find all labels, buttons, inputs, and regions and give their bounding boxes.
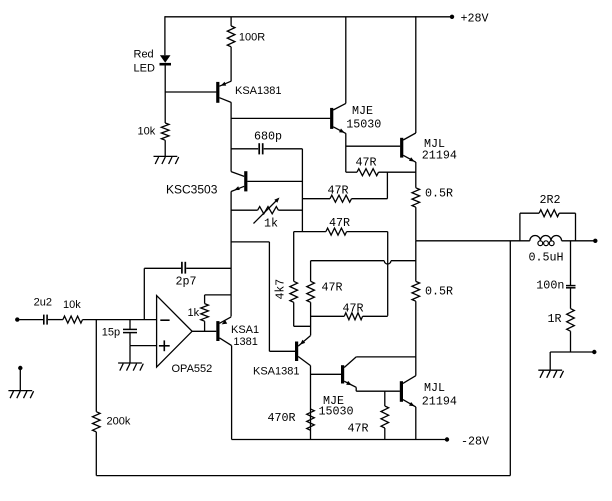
terminal dot +28V <box>450 15 454 19</box>
terminal dot output ground <box>592 350 596 354</box>
wire <box>562 240 596 242</box>
capacitor 100n <box>566 285 576 287</box>
terminal dot -28V <box>445 437 449 441</box>
svg-text:47R: 47R <box>343 302 364 316</box>
inductor 0.5uH <box>530 236 562 241</box>
wire <box>129 346 131 363</box>
wire <box>386 172 388 199</box>
svg-text:47R: 47R <box>322 281 343 295</box>
svg-text:MJL: MJL <box>424 381 445 395</box>
svg-text:MJE: MJE <box>352 104 373 118</box>
wire (hop over) <box>311 260 385 262</box>
svg-text:+28V: +28V <box>461 12 489 26</box>
LED D1 Red <box>160 55 171 63</box>
wire <box>264 148 303 150</box>
resistor 1k (op-amp out) <box>204 321 206 331</box>
wire <box>387 232 389 316</box>
wire <box>570 331 572 352</box>
svg-text:15p: 15p <box>102 326 120 338</box>
wire <box>95 320 97 412</box>
resistor 470R <box>307 409 315 430</box>
svg-text:10k: 10k <box>138 126 156 138</box>
wire <box>231 148 258 150</box>
wire <box>345 17 347 104</box>
resistor 47R (upper emitter) <box>346 171 357 173</box>
transistor Q2 KSC3503 <box>244 171 247 191</box>
svg-text:-28V: -28V <box>461 434 489 448</box>
ground (op-amp +) <box>118 363 143 371</box>
wire (output) <box>416 240 530 242</box>
wire (feedback bottom) <box>96 475 510 477</box>
transistor Q3 MJE15030 <box>330 108 333 129</box>
svg-text:100R: 100R <box>239 31 265 43</box>
wire <box>130 345 157 347</box>
ground (input) <box>8 391 33 399</box>
transistor Q4 MJL21194 <box>400 138 403 158</box>
svg-text:1R: 1R <box>548 312 562 326</box>
svg-text:21194: 21194 <box>422 148 457 162</box>
svg-text:0.5uH: 0.5uH <box>529 251 564 265</box>
terminal input dot <box>15 317 19 321</box>
svg-text:0.5R: 0.5R <box>425 187 453 201</box>
resistor 0.5R (upper) <box>412 188 420 207</box>
resistor 47R (lower) <box>384 391 386 406</box>
wire <box>19 370 21 391</box>
wire <box>230 102 232 171</box>
capacitor 2u2 <box>43 315 45 325</box>
wire <box>83 319 157 321</box>
transistor Q1 KSA1381 <box>216 82 219 103</box>
wire <box>549 352 551 370</box>
wire <box>570 288 572 308</box>
wire <box>95 432 97 476</box>
svg-text:KSA1: KSA1 <box>231 324 259 336</box>
ground <box>154 156 179 164</box>
wire <box>415 301 417 376</box>
resistor 1R <box>567 309 575 332</box>
resistor 10k (input) <box>63 316 83 323</box>
ground (output) <box>538 370 563 378</box>
wire <box>186 267 231 269</box>
transistor Q8 MJL21194 <box>400 381 403 402</box>
wire <box>301 149 303 232</box>
svg-text:47R: 47R <box>328 184 349 198</box>
wire (collector) <box>356 356 416 358</box>
wire <box>268 242 270 351</box>
svg-text:KSA1381: KSA1381 <box>253 366 299 378</box>
transistor Q7 MJE15030 <box>341 365 344 383</box>
transistor Q5 KSA1381 <box>216 321 219 341</box>
resistor 47R (2nd) <box>302 198 330 200</box>
wire <box>143 268 145 319</box>
svg-text:100n: 100n <box>536 279 564 293</box>
wire <box>570 241 572 285</box>
wire <box>550 351 594 353</box>
svg-text:680p: 680p <box>254 130 282 144</box>
wire <box>356 390 400 392</box>
wire <box>164 65 166 123</box>
resistor 10k (LED bias) <box>161 123 169 140</box>
wire <box>415 162 417 188</box>
svg-text:47R: 47R <box>356 156 377 170</box>
wire <box>415 207 417 241</box>
svg-text:KSC3503: KSC3503 <box>166 183 218 197</box>
svg-text:1k: 1k <box>188 307 200 319</box>
resistor 47R (3rd) <box>294 231 326 233</box>
resistor 47R (4th) <box>311 315 345 317</box>
svg-text:200k: 200k <box>107 416 131 428</box>
svg-text:0.5R: 0.5R <box>425 285 453 299</box>
svg-text:47R: 47R <box>329 216 350 230</box>
svg-text:15030: 15030 <box>346 118 381 132</box>
wire <box>415 241 417 282</box>
svg-text:21194: 21194 <box>422 394 457 408</box>
svg-text:OPA552: OPA552 <box>172 363 213 375</box>
wire (feedback riser) <box>509 241 511 476</box>
wire <box>164 16 166 55</box>
node +28V rail <box>165 16 452 18</box>
terminal dot output <box>593 239 597 243</box>
svg-text:1k: 1k <box>264 217 278 231</box>
capacitor 680p <box>258 143 260 154</box>
svg-text:47R: 47R <box>348 422 369 436</box>
wire <box>231 117 330 119</box>
transistor Q6 KSA1381 <box>295 342 298 362</box>
resistor 1k trimmer <box>231 209 258 211</box>
svg-text:2p7: 2p7 <box>176 275 197 289</box>
capacitor 15p <box>129 320 131 329</box>
wire <box>165 91 216 93</box>
svg-text:4k7: 4k7 <box>275 279 288 300</box>
wire <box>230 47 232 82</box>
svg-text:1381: 1381 <box>233 336 257 348</box>
resistor 0.5R (lower) <box>412 281 420 301</box>
op-amp U1 OPA552 <box>157 296 193 368</box>
wire <box>48 319 63 321</box>
svg-text:2R2: 2R2 <box>540 193 561 207</box>
svg-text:470R: 470R <box>268 411 296 425</box>
wire <box>310 366 312 440</box>
wire <box>20 319 44 321</box>
svg-text:KSA1381: KSA1381 <box>235 85 281 97</box>
wire <box>346 145 400 147</box>
wire <box>415 16 417 133</box>
resistor 200k <box>93 412 101 432</box>
svg-text:LED: LED <box>134 63 155 75</box>
wire <box>231 346 233 440</box>
wire <box>230 17 232 26</box>
wire <box>230 191 232 316</box>
svg-text:2u2: 2u2 <box>34 297 52 309</box>
resistor 2R2 <box>519 213 521 241</box>
resistor 4k7 <box>293 232 295 282</box>
wire <box>164 140 166 156</box>
wire <box>311 373 342 375</box>
wire <box>144 267 181 269</box>
resistor 100R <box>227 26 235 47</box>
node -28V rail <box>232 439 447 441</box>
svg-text:10k: 10k <box>63 299 81 311</box>
resistor 47R (bias) <box>310 261 312 282</box>
svg-text:Red: Red <box>134 49 154 61</box>
wire <box>345 133 347 172</box>
terminal input ground dot <box>18 366 22 370</box>
wire <box>415 407 417 440</box>
capacitor 2p7 <box>181 262 183 274</box>
svg-text:15030: 15030 <box>319 405 354 419</box>
wire <box>231 241 269 243</box>
